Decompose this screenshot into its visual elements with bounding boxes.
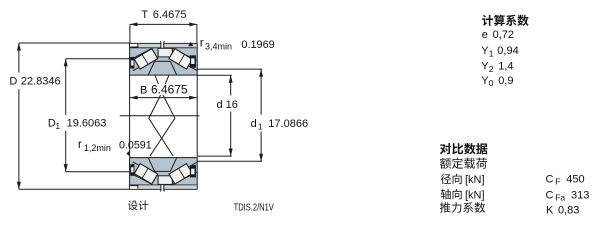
svg-text:T: T	[141, 9, 148, 21]
cage center block	[158, 176, 172, 185]
cage end right	[190, 165, 196, 177]
svg-text:6.4675: 6.4675	[153, 9, 187, 21]
cage end left	[130, 164, 134, 176]
svg-text:1: 1	[258, 122, 263, 132]
retaining notch left	[130, 186, 138, 189]
svg-text:0.0591: 0.0591	[119, 139, 152, 151]
tapered roller left row	[134, 164, 157, 184]
inner raceway lines	[133, 162, 158, 176]
caption design (CJK)	[128, 201, 138, 211]
outer ring outer band	[130, 44, 197, 48]
dimension D1 line	[65, 59, 67, 115]
svg-text:Fa: Fa	[555, 193, 565, 203]
svg-text:C: C	[546, 173, 554, 185]
fillet r1,2 leader arrow	[126, 151, 130, 157]
svg-text:313: 313	[571, 189, 589, 201]
inner ring abutment	[155, 60, 171, 62]
bearing upper half section	[130, 42, 198, 75]
svg-text:r: r	[200, 36, 204, 50]
svg-text:6.4675: 6.4675	[151, 83, 188, 97]
svg-text:e: e	[482, 29, 488, 41]
bearing lower half section	[130, 158, 198, 191]
tapered roller left row	[134, 49, 157, 69]
lubrication hole	[161, 42, 164, 49]
dimension D label	[7, 74, 62, 88]
inner ring abutment	[155, 170, 171, 172]
svg-text:d 16: d 16	[217, 99, 238, 111]
outer raceway lines	[130, 48, 153, 60]
dimension d1 line	[260, 69, 262, 115]
centerline axis	[120, 115, 200, 117]
lower rings body	[130, 158, 198, 190]
svg-text:TDIS.2/N1V: TDIS.2/N1V	[234, 201, 275, 212]
lubrication hole	[161, 184, 164, 191]
svg-text:r: r	[78, 137, 82, 151]
svg-text:[kN]: [kN]	[465, 189, 485, 201]
svg-text:0,83: 0,83	[558, 204, 579, 216]
dimension D line	[18, 43, 20, 73]
svg-text:17.0866: 17.0866	[268, 118, 308, 130]
svg-text:K: K	[546, 204, 554, 216]
fillet r3,4 leader arrow	[188, 42, 193, 46]
svg-text:0: 0	[489, 78, 494, 88]
svg-text:B: B	[140, 85, 147, 97]
dimension D1 label	[46, 116, 105, 131]
heading calculation factors	[482, 15, 493, 26]
dimension d extension lines	[197, 74, 232, 76]
section cross pattern line 1	[150, 75, 175, 156]
svg-text:F: F	[555, 177, 560, 187]
dimension D1 extension lines	[66, 58, 130, 60]
cage center block	[158, 48, 172, 57]
svg-text:19.6063: 19.6063	[67, 117, 107, 129]
dimension T line	[130, 23, 197, 25]
outer raceway lines	[130, 173, 153, 185]
svg-text:1: 1	[489, 48, 494, 58]
row rated load	[440, 158, 451, 169]
svg-text:0,94: 0,94	[497, 45, 518, 57]
row radial [kN]	[441, 174, 451, 184]
dimension d1 label	[249, 117, 263, 132]
inner raceway lines	[133, 57, 158, 71]
designation TDIS.2/N1V	[234, 201, 275, 212]
dimension T extension lines	[129, 24, 131, 43]
svg-text:450: 450	[566, 173, 584, 185]
dimension D extension lines	[19, 42, 130, 44]
row axial [kN]	[441, 189, 451, 199]
dimension B extension mask	[138, 84, 191, 95]
svg-text:1,4: 1,4	[498, 61, 513, 73]
section cross pattern line 2	[149, 75, 173, 156]
svg-text:3,4min: 3,4min	[205, 41, 232, 51]
cage end left	[130, 57, 134, 69]
tapered roller right row	[169, 164, 192, 184]
retaining notch left	[130, 44, 138, 47]
svg-text:C: C	[546, 189, 554, 201]
svg-text:1: 1	[55, 121, 60, 131]
svg-text:22.8346: 22.8346	[21, 76, 61, 88]
svg-text:0,9: 0,9	[498, 75, 513, 87]
svg-text:0,72: 0,72	[493, 29, 514, 41]
upper rings body	[130, 43, 198, 75]
outer ring outer band	[130, 185, 197, 189]
dimension B line	[130, 97, 197, 99]
svg-text:d: d	[251, 118, 257, 130]
cage end right	[190, 55, 196, 67]
heading comparative data	[440, 143, 451, 154]
side face line left	[129, 75, 131, 157]
svg-text:2: 2	[489, 64, 494, 74]
dimension d line	[230, 75, 232, 95]
svg-text:[kN]: [kN]	[465, 174, 485, 186]
svg-text:1,2min: 1,2min	[84, 143, 111, 153]
row thrust factor	[440, 202, 451, 213]
dimension d1 extension lines	[197, 68, 262, 70]
side face line right	[196, 75, 198, 157]
svg-text:D: D	[9, 76, 17, 88]
svg-text:0.1969: 0.1969	[241, 39, 274, 51]
tapered roller right row	[169, 49, 192, 69]
